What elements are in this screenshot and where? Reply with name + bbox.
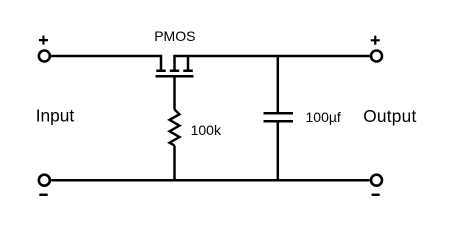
terminal TP3 (output +) bbox=[371, 51, 382, 62]
plus symbol (output) bbox=[371, 36, 380, 45]
svg-text:100µf: 100µf bbox=[306, 109, 341, 125]
svg-text:Input: Input bbox=[36, 106, 75, 126]
svg-text:100k: 100k bbox=[191, 122, 222, 138]
plus symbol (input) bbox=[39, 36, 48, 45]
wire: top rail right segment to output terminal bbox=[173, 55, 369, 58]
transistor Q1 PMOS: gate line bbox=[156, 75, 194, 78]
wire: capacitor down to bottom rail bbox=[277, 123, 280, 181]
terminal TP4 (output -) bbox=[371, 175, 382, 186]
transistor Q1 PMOS: bulk contact bar bbox=[170, 70, 180, 73]
wire: gate down to resistor bbox=[173, 77, 176, 110]
capacitor C1 (100uf) bottom plate bbox=[264, 120, 294, 123]
wire: bottom rail bbox=[51, 179, 370, 182]
wire: bulk stub bbox=[173, 56, 176, 70]
terminal TP1 (input +) bbox=[39, 51, 50, 62]
svg-text:PMOS: PMOS bbox=[154, 28, 195, 44]
wire: top rail down to capacitor bbox=[277, 56, 280, 112]
wire: resistor down to bottom rail bbox=[173, 146, 176, 181]
transistor Q1 PMOS: drain contact bar bbox=[183, 70, 193, 73]
terminal TP2 (input -) bbox=[39, 175, 50, 186]
capacitor C1 (100uf) top plate bbox=[264, 112, 294, 115]
resistor R1 (100k) zigzag bbox=[170, 110, 180, 146]
transistor Q1 PMOS: source contact bar bbox=[156, 70, 166, 73]
wire: top rail left segment into source stub bbox=[51, 56, 161, 70]
minus symbol (input) bbox=[39, 194, 47, 196]
wire: drain stub bbox=[187, 56, 190, 70]
svg-text:Output: Output bbox=[363, 106, 416, 126]
minus symbol (output) bbox=[372, 194, 380, 196]
